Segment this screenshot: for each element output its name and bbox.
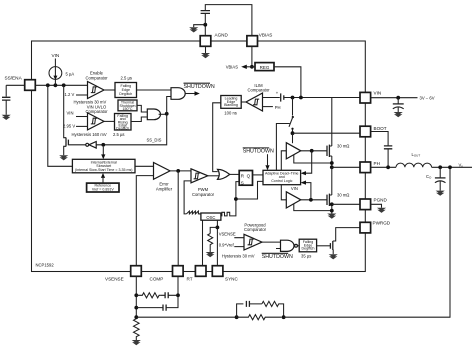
svg-text:VIN: VIN: [374, 90, 382, 95]
label L_OUT: [412, 152, 421, 158]
svg-text:30 mΩ: 30 mΩ: [337, 144, 349, 149]
NAND gate powergood: [281, 240, 298, 251]
resistor feedback R bottom branch: [237, 315, 282, 320]
resistor SYNC pulldown: [208, 227, 218, 252]
wire SS_DIS node down to inverter line: [96, 114, 167, 145]
latch RS: [239, 171, 252, 186]
node feedback tap: [448, 165, 452, 169]
wire enable comp to deglitch: [104, 89, 115, 91]
wire bootstrap to BOOT pin: [293, 132, 361, 134]
svg-text:Hysteresis 160 mV: Hysteresis 160 mV: [72, 132, 107, 137]
svg-text:SHUTDOWN: SHUTDOWN: [262, 254, 293, 260]
svg-text:Comparator: Comparator: [244, 227, 267, 232]
node feedback left: [235, 315, 239, 319]
wire PH external: [371, 166, 396, 168]
inductor L_OUT: [396, 163, 432, 167]
label VIN current source: [51, 53, 59, 58]
box reference Vref: [87, 183, 119, 192]
svg-text:VIN: VIN: [67, 111, 74, 116]
label 35 us: [301, 254, 311, 259]
node SYNC pulldown junction: [216, 226, 220, 230]
oscillator OSC box: [201, 213, 221, 220]
node COMP junction: [176, 169, 180, 173]
svg-text:Deglitch: Deglitch: [302, 247, 315, 251]
label 2.5 us deglitch2: [113, 132, 125, 137]
wire VIN external: [371, 97, 418, 99]
label 0.9*Vref: [219, 242, 235, 247]
pin COMP: [150, 266, 184, 282]
node low FET source sense: [330, 209, 334, 213]
ground VIN cap: [394, 112, 403, 117]
arrow SS_DIS into slowstart box: [101, 147, 105, 160]
driver high side: [286, 143, 301, 159]
op-amp error amplifier: [154, 163, 171, 180]
node clock junction: [234, 197, 238, 201]
wire high driver output to gate: [301, 150, 327, 152]
wire low driver return: [294, 204, 332, 211]
wire ILIM comp output to leading edge blanking: [241, 101, 246, 103]
box thermal shutdown: [118, 100, 137, 111]
arrow high gate sense into adaptive: [301, 151, 312, 175]
svg-text:RT: RT: [187, 276, 193, 281]
svg-text:VIN: VIN: [51, 53, 59, 58]
pin AGND: [200, 33, 228, 47]
transistor low side MOSFET 30 mohm: [327, 167, 349, 213]
wire pg comparator input stubs: [234, 238, 244, 247]
svg-text:(Internal Slow-Start Time = 3.: (Internal Slow-Start Time = 3.35 ms): [75, 168, 133, 172]
svg-text:SYNC: SYNC: [225, 276, 238, 281]
wire VSENSE external down: [135, 276, 137, 318]
label 2.5 us deglitch1: [121, 76, 133, 81]
wire UVLO comp to FR deglitch: [104, 120, 115, 122]
label SHUTDOWN pg: [262, 253, 293, 260]
ground SS MOSFET: [59, 155, 68, 160]
svg-text:1.2 V: 1.2 V: [65, 92, 75, 97]
svg-text:BOOT: BOOT: [374, 126, 387, 131]
wire thermal shutdown to AND2: [137, 105, 147, 112]
ground SS cap: [2, 115, 11, 120]
node feedback right: [282, 315, 286, 319]
node bootstrap PH junction: [386, 165, 390, 169]
label SS/ENA: [5, 76, 23, 81]
box leading edge blanking: [221, 96, 241, 109]
svg-text:Q: Q: [247, 173, 251, 178]
ground low FET: [327, 214, 336, 219]
wire OSC to RT pin: [202, 220, 204, 266]
ground PWRGD MOSFET: [329, 254, 338, 259]
wire output node: [432, 166, 472, 168]
svg-text:VIN: VIN: [291, 186, 298, 191]
label Enable Comparator: [85, 71, 108, 81]
wire AND2 output to node: [159, 113, 167, 115]
regulator REG box: [252, 63, 274, 71]
inverter SS discharge: [86, 142, 97, 149]
svg-text:Control Logic: Control Logic: [271, 179, 292, 183]
op-amp enable comparator: [88, 82, 105, 99]
label Hysteresis 30 mV: [74, 99, 107, 104]
wire slowstart to error amp: [135, 165, 154, 167]
svg-text:Deglitch: Deglitch: [119, 92, 132, 96]
label Powergood Comparator: [244, 222, 267, 232]
wire SS/ENA to slowstart box: [48, 85, 73, 166]
wire VBIAS pin down to REG node: [251, 46, 253, 67]
wire SS/ENA bus: [35, 84, 87, 86]
current source 5uA: [49, 59, 62, 86]
node PGND junction: [330, 202, 334, 206]
wire BOOT external to cap: [371, 132, 389, 146]
svg-text:Vref = 0.891V: Vref = 0.891V: [92, 188, 115, 192]
wire bootstrap to high driver supply: [292, 133, 294, 143]
node vsense comp2: [134, 306, 138, 310]
svg-text:VSENSE: VSENSE: [219, 232, 236, 237]
label VIN low driver: [291, 186, 298, 191]
pin RT: [187, 266, 207, 282]
wire PWM comp ramp input: [184, 181, 191, 214]
svg-text:AGND: AGND: [215, 33, 229, 38]
svg-text:Deglitch: Deglitch: [116, 127, 129, 131]
OR gate PWM/ILIM: [218, 169, 230, 179]
svg-text:CO: CO: [426, 174, 432, 180]
label Vo: [459, 162, 464, 168]
wire PGND pin connection: [332, 203, 360, 205]
pin VSENSE: [105, 266, 141, 282]
label SHUTDOWN adaptive: [243, 148, 274, 155]
capacitor compensation series C: [161, 292, 178, 298]
wire OSC to SYNC pin: [216, 220, 218, 266]
wire NAND to deglitch: [297, 245, 299, 247]
label ILIM Comparator: [247, 83, 270, 92]
wire AND1 output arrow SHUTDOWN: [185, 91, 199, 95]
AND gate A2: [147, 109, 160, 120]
wire SS_DIS node up to AND1 input: [167, 97, 171, 114]
arrow reference to slowstart: [101, 173, 105, 183]
capacitor bootstrap: [384, 146, 392, 167]
label Hysteresis 160 mV: [72, 132, 107, 137]
wire low driver output to gate: [301, 199, 327, 201]
wire deglitch to PWRGD MOSFET gate: [317, 245, 331, 247]
label C_O: [426, 174, 432, 180]
ground C_O: [436, 191, 445, 196]
node high gate junction: [310, 149, 314, 153]
wire FR deglitch to AND2: [131, 117, 147, 122]
label PH stub ILIM: [263, 105, 281, 110]
label VSENSE pg input: [219, 232, 236, 237]
svg-text:SHUTDOWN: SHUTDOWN: [184, 84, 215, 90]
wire ILIM plus input: [263, 97, 293, 99]
pin VIN: [360, 90, 381, 103]
node VIN bus switch junction: [291, 96, 295, 100]
node inverter output junction: [101, 143, 105, 147]
svg-text:Hysteresis 30 mV: Hysteresis 30 mV: [222, 254, 255, 259]
label 1.2 V: [65, 92, 88, 97]
label 100 ns: [224, 110, 237, 115]
svg-text:2.5 µs: 2.5 µs: [113, 132, 125, 137]
svg-text:5 µA: 5 µA: [66, 72, 75, 77]
svg-text:LOUT: LOUT: [412, 152, 421, 158]
svg-text:Amplifier: Amplifier: [156, 186, 173, 191]
wire VIN bus to pin: [293, 97, 361, 99]
svg-text:VBIAS: VBIAS: [226, 65, 239, 70]
wire feedback to output: [284, 167, 450, 317]
svg-text:30 mΩ: 30 mΩ: [337, 193, 349, 198]
capacitor AGND to VBIAS: [201, 5, 252, 36]
svg-text:SS_DIS: SS_DIS: [147, 138, 162, 143]
wire deglitch to AND1: [137, 89, 172, 91]
current sense offset symbol: [276, 91, 284, 102]
pin BOOT: [360, 126, 387, 137]
label 5 uA: [66, 72, 75, 77]
node C_O junction: [438, 165, 442, 169]
svg-text:Comparator: Comparator: [192, 192, 215, 197]
node comp branch junction: [176, 293, 180, 297]
svg-text:REG: REG: [260, 65, 270, 70]
node VIN input cap: [396, 96, 400, 100]
svg-text:Vo: Vo: [459, 162, 464, 168]
label NCP1592: [36, 263, 55, 268]
pin SYNC: [212, 266, 238, 282]
ground AGND pin: [201, 46, 210, 58]
label Hysteresis 30 mV pg: [222, 254, 255, 259]
transistor PWRGD MOSFET: [330, 228, 360, 255]
node low gate junction: [309, 198, 313, 202]
pin VBIAS: [247, 33, 272, 47]
resistor feedback R top branch: [262, 301, 284, 317]
node vsense feedback: [134, 315, 138, 319]
ground SYNC pulldown: [206, 252, 215, 257]
svg-text:Blanking: Blanking: [224, 103, 238, 107]
arrow low gate sense into adaptive: [301, 181, 311, 200]
arrow SHUTDOWN into adaptive box: [265, 154, 269, 170]
pin PH: [360, 161, 380, 173]
svg-text:NCP1592: NCP1592: [36, 263, 55, 268]
wire comp branch1 to COMP pin: [177, 276, 179, 295]
label SS_DIS: [147, 138, 162, 143]
transistor high side MOSFET 30 mohm: [327, 144, 349, 168]
op-amp VIN UVLO comparator: [88, 113, 105, 130]
AND gate A1: [171, 88, 185, 100]
svg-text:S: S: [241, 181, 244, 186]
wire drain high FET from bus: [331, 98, 333, 147]
node high FET source sense: [330, 161, 334, 165]
node SS bus junction 2: [54, 83, 58, 87]
node PH junction internal: [330, 165, 334, 169]
node SS bus junction 1: [46, 83, 50, 87]
wire PH pin connection: [332, 166, 360, 168]
box adaptive dead-time and control logic: [263, 170, 301, 184]
switch bootstrap: [289, 98, 294, 134]
node SS_DIS junction: [165, 112, 169, 116]
label PWM Comparator: [192, 187, 215, 197]
wire adaptive to high driver input: [281, 151, 286, 171]
svg-text:SHUTDOWN: SHUTDOWN: [243, 149, 274, 155]
wire OR gate to latch R: [230, 173, 240, 175]
ground PGND external: [371, 204, 387, 213]
svg-text:PH: PH: [374, 161, 380, 166]
transistor SS discharge MOSFET: [64, 85, 69, 155]
svg-text:100 ns: 100 ns: [224, 110, 237, 115]
svg-text:3V − 6V: 3V − 6V: [420, 96, 435, 101]
capacitor VIN input: [393, 98, 404, 112]
node vsense comp1: [134, 293, 138, 297]
wire adaptive to low driver input: [281, 185, 286, 200]
ground AGND top left: [189, 27, 198, 32]
wire blanking output down to OR gate: [213, 103, 221, 172]
node VIN bus REG junction: [299, 96, 303, 100]
box falling edge deglitch 35us: [299, 239, 316, 252]
wire REG output to VIN bus: [274, 67, 301, 98]
label VIN stub: [67, 111, 88, 117]
label VIN UVLO Comparator: [85, 104, 108, 114]
arrow VBIAS internal rail: [226, 65, 252, 70]
label SHUTDOWN top: [184, 83, 215, 90]
capacitor feedback C top branch: [237, 301, 262, 317]
box internal/external slowstart: [72, 159, 135, 173]
wire inverter to MOSFET gate: [68, 144, 85, 146]
box falling edge deglitch: [115, 83, 137, 98]
svg-text:150°C: 150°C: [122, 107, 132, 111]
pin SS/ENA: [25, 80, 36, 91]
wire PWM comp to OR gate: [208, 175, 219, 177]
op-amp ILIM comparator: [246, 93, 263, 111]
resistor VSENSE divider lower: [134, 319, 140, 340]
svg-text:2.5 µs: 2.5 µs: [121, 76, 133, 81]
box falling and rising edge deglitch: [115, 114, 132, 131]
wire SS/ENA external: [6, 85, 25, 96]
label 2.95 V: [63, 124, 88, 129]
wire clock to latch S and adaptive logic: [232, 181, 264, 216]
wire feedback to divider network: [136, 316, 236, 318]
svg-text:PGND: PGND: [374, 198, 388, 203]
svg-text:35 µs: 35 µs: [301, 254, 311, 259]
node bootstrap junction: [291, 131, 295, 135]
pin PWRGD: [360, 220, 391, 233]
op-amp powergood comparator: [244, 234, 262, 250]
resistor compensation series R: [136, 293, 160, 298]
sawtooth ramp symbol: [186, 211, 200, 214]
node AGND cap junction: [203, 23, 207, 27]
wire latch Q to adaptive logic: [253, 174, 264, 176]
svg-text:OSC: OSC: [206, 215, 215, 220]
svg-text:PWRGD: PWRGD: [373, 220, 391, 225]
clock pulse symbol: [221, 212, 232, 216]
IC boundary NCP1592: [32, 41, 366, 272]
svg-text:COMP: COMP: [150, 276, 164, 281]
svg-text:2.95 V: 2.95 V: [63, 124, 75, 129]
label Error Amplifier: [156, 182, 173, 192]
wire COMP pin line: [177, 171, 179, 266]
capacitor compensation parallel C: [136, 295, 178, 310]
capacitor SS external: [2, 97, 10, 115]
node SS bus junction 3: [62, 83, 66, 87]
label 3V - 6V: [420, 96, 435, 101]
svg-text:VSENSE: VSENSE: [105, 276, 124, 281]
wire high driver return: [294, 155, 332, 163]
driver low side: [286, 192, 301, 208]
svg-text:Comparator: Comparator: [85, 75, 108, 80]
ground VSENSE divider: [132, 340, 141, 345]
op-amp PWM comparator: [191, 169, 208, 183]
svg-text:SS/ENA: SS/ENA: [5, 76, 23, 81]
wire ramp to OSC: [199, 213, 201, 215]
wire AGND top node: [194, 25, 206, 36]
pin PGND: [360, 198, 387, 210]
wire pg comp to NAND: [262, 242, 281, 248]
wire VSENSE to error amp inverting input: [136, 176, 153, 266]
wire switch control to adaptive logic: [276, 124, 289, 171]
svg-text:Comparator: Comparator: [247, 88, 270, 93]
node REG junction: [250, 65, 254, 69]
svg-text:VBIAS: VBIAS: [259, 33, 273, 38]
capacitor C_O output: [435, 167, 446, 190]
wire error amp output to PWM comparator: [170, 170, 191, 172]
svg-text:0.9*Vref: 0.9*Vref: [219, 242, 235, 247]
svg-text:PH: PH: [275, 105, 281, 110]
